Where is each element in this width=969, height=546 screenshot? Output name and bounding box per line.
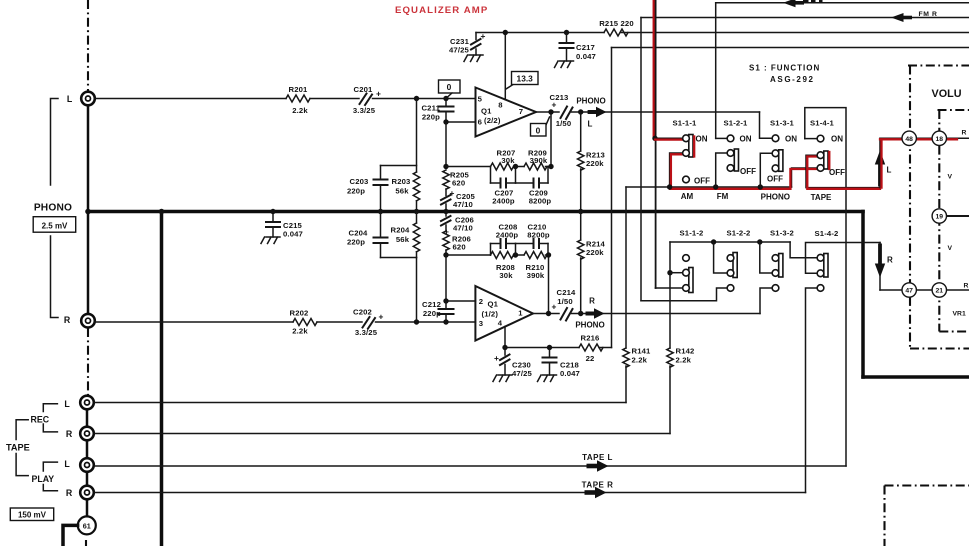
svg-text:3.3/25: 3.3/25	[355, 328, 378, 337]
svg-text:PHONO: PHONO	[576, 97, 605, 106]
svg-text:8200p: 8200p	[527, 231, 550, 240]
svg-text:S1-4-2: S1-4-2	[815, 229, 839, 238]
node mid feedback	[513, 164, 518, 169]
rec out L vertical with R141	[625, 187, 627, 348]
svg-text:S1-2-1: S1-2-1	[724, 118, 749, 127]
resistor R201	[286, 95, 310, 102]
capacitor C204	[347, 212, 388, 258]
node rail S1-2-2	[711, 239, 716, 244]
node S1-1-2 mid	[667, 270, 672, 275]
rec out R vertical with R142	[669, 273, 671, 348]
svg-text:C212: C212	[422, 300, 441, 309]
wire pin2	[446, 300, 475, 302]
svg-text:620: 620	[453, 243, 466, 252]
svg-text:8200p: 8200p	[529, 197, 552, 206]
svg-text:2: 2	[479, 297, 483, 306]
svg-text:S1-1-1: S1-1-1	[673, 118, 698, 127]
svg-text:18: 18	[936, 136, 944, 143]
svg-text:+: +	[552, 100, 557, 110]
callout box 0 (output)	[531, 117, 550, 136]
ground bus thick bottom right	[863, 375, 969, 379]
resistor R142	[667, 348, 673, 367]
capacitor C218	[543, 348, 581, 379]
resistor R205	[443, 170, 470, 189]
svg-text:48: 48	[905, 136, 913, 143]
svg-text:220k: 220k	[586, 159, 604, 168]
switch S1-1-2	[683, 255, 693, 293]
wire S1-2-1 ON elbow	[716, 137, 728, 139]
ground (C215)	[261, 237, 280, 244]
connector pin 21	[932, 283, 946, 297]
resistor R213	[578, 112, 605, 212]
jack chain wire	[87, 214, 90, 314]
op-amp Q1 (2/2)	[476, 88, 537, 137]
svg-text:2.2k: 2.2k	[632, 356, 648, 365]
volume box dash-dot inner	[938, 109, 969, 111]
wire AM to S1-1-1 ON	[655, 137, 683, 139]
svg-text:56k: 56k	[396, 235, 410, 244]
wire S1-1-2 mid	[670, 272, 683, 274]
tape rec jack R	[80, 427, 94, 441]
feedback to output vertical R	[548, 255, 550, 314]
wire R to circles	[880, 289, 969, 291]
red overlay jog	[790, 169, 816, 189]
resistor R203	[392, 172, 420, 212]
arrow L up to volume	[875, 138, 885, 187]
capacitor C202 (electrolytic)	[353, 308, 384, 338]
wire	[317, 321, 362, 323]
capacitor C203	[347, 166, 388, 212]
wire	[572, 313, 761, 315]
svg-text:+: +	[494, 353, 499, 363]
wire FM R line	[641, 17, 969, 19]
wire rail to S1-2-2 mid	[714, 242, 728, 273]
svg-text:R: R	[964, 283, 969, 290]
wire S1-4-1 common out	[806, 155, 880, 187]
svg-text:13.3: 13.3	[517, 74, 534, 84]
arrow R down to volume	[875, 243, 885, 291]
svg-text:AM: AM	[681, 192, 694, 201]
ground (C218)	[538, 375, 557, 382]
svg-text:R: R	[589, 297, 595, 306]
svg-text:PLAY: PLAY	[31, 474, 54, 484]
chassis dash-dot border top-left	[87, 0, 89, 91]
svg-text:R142: R142	[676, 347, 695, 356]
svg-text:(1/2): (1/2)	[482, 310, 499, 319]
wire bank1 bus	[626, 186, 792, 188]
svg-text:56k: 56k	[395, 187, 409, 196]
svg-text:7: 7	[519, 107, 523, 116]
svg-text:+: +	[450, 188, 455, 198]
svg-text:1/50: 1/50	[557, 297, 573, 306]
resistor R141	[623, 348, 629, 367]
jack chain wire	[86, 472, 89, 486]
resistor R214	[578, 212, 606, 314]
svg-text:FM R: FM R	[919, 11, 938, 18]
capacitor C201 (electrolytic)	[353, 85, 381, 115]
svg-text:0.047: 0.047	[283, 230, 303, 239]
resistor R207	[491, 163, 514, 170]
rail C203 R203	[381, 165, 417, 167]
node mid feedback R	[513, 252, 518, 257]
connector pin 19	[932, 209, 946, 223]
node bus S1-1-1	[667, 184, 672, 189]
connector pin 47	[902, 283, 916, 297]
node AM junction	[652, 136, 657, 141]
jack chain wire	[86, 441, 89, 459]
switch S1-4-2	[817, 254, 828, 292]
arrow FM R	[891, 13, 912, 22]
node C218	[547, 345, 552, 350]
svg-text:2400p: 2400p	[496, 231, 519, 240]
pin2 feedback vertical	[445, 255, 447, 301]
svg-text:47: 47	[905, 288, 913, 295]
svg-text:0: 0	[447, 82, 452, 92]
svg-text:S1-3-1: S1-3-1	[770, 118, 795, 127]
tape outer bracket	[16, 420, 28, 476]
svg-text:R: R	[66, 488, 73, 498]
capacitor C213 (electrolytic)	[550, 93, 573, 128]
wire bus jog to S1-4-1 OFF	[792, 168, 818, 187]
svg-text:0: 0	[536, 126, 541, 136]
svg-text:150 mV: 150 mV	[18, 511, 47, 520]
jack chain wire	[86, 410, 89, 428]
svg-text:PHONO: PHONO	[575, 321, 604, 330]
ground bus thick horizontal	[88, 210, 863, 214]
resistor R215	[604, 29, 628, 36]
svg-text:5: 5	[478, 95, 483, 104]
svg-text:ON: ON	[785, 134, 797, 143]
node output	[548, 109, 553, 114]
svg-text:3.3/25: 3.3/25	[353, 106, 376, 115]
wire S1-2-1 common	[716, 153, 728, 187]
svg-text:R204: R204	[391, 226, 411, 235]
svg-text:3: 3	[479, 319, 483, 328]
tape play jack L	[80, 458, 94, 472]
arrow PHONO R out	[586, 308, 605, 319]
switch S1-2-1	[727, 135, 738, 171]
capacitor C217	[560, 33, 597, 62]
svg-text:1/50: 1/50	[556, 119, 572, 128]
svg-text:C204: C204	[349, 229, 369, 238]
svg-text:TAPE L: TAPE L	[582, 453, 613, 462]
node C217	[564, 30, 569, 35]
wire	[373, 98, 476, 100]
svg-text:ON: ON	[831, 135, 843, 144]
arrow TAPE R	[585, 487, 607, 499]
svg-text:220p: 220p	[347, 238, 365, 247]
wire	[546, 166, 552, 168]
wire phono L input	[95, 98, 286, 100]
capacitor C230 (electrolytic)	[494, 348, 533, 379]
wire R216 to supply vertical	[599, 347, 612, 349]
svg-text:R202: R202	[290, 309, 309, 318]
red overlay bank1 bus	[670, 188, 790, 190]
node pin3	[443, 319, 448, 324]
wire tape play L line	[95, 465, 847, 467]
red overlay AM to ON	[655, 138, 682, 140]
load network vertical	[416, 99, 418, 173]
wire play R to S1-4-2	[806, 288, 818, 493]
feedback to output vertical	[550, 112, 552, 167]
svg-text:8: 8	[498, 101, 503, 110]
node bus C203	[378, 209, 383, 214]
supply rail wire	[476, 32, 604, 34]
svg-text:620: 620	[452, 179, 465, 188]
svg-text:ASG-292: ASG-292	[770, 75, 815, 84]
svg-text:19: 19	[936, 214, 944, 221]
svg-text:TAPE: TAPE	[811, 193, 832, 202]
wire rail to S1-3-2 mid	[760, 242, 773, 273]
supply vertical from top	[611, 48, 613, 348]
svg-text:ON: ON	[696, 134, 708, 143]
wire L to circles	[880, 137, 969, 139]
svg-text:R: R	[64, 315, 71, 325]
node R213	[578, 109, 583, 114]
FM R feed vertical	[640, 18, 642, 301]
wire S1-4-1 ON elbow	[805, 138, 818, 140]
svg-text:C211: C211	[421, 104, 440, 113]
supply line to edge	[621, 32, 969, 34]
supply line y47 to edge	[612, 47, 969, 49]
svg-text:+: +	[379, 312, 384, 322]
tape play jack R	[80, 486, 94, 500]
svg-text:PHONO: PHONO	[34, 203, 72, 214]
wire	[625, 366, 627, 403]
resistor R202	[293, 319, 317, 326]
FM L feed vertical	[715, 3, 717, 139]
svg-text:OFF: OFF	[829, 168, 845, 177]
capacitor C209	[516, 179, 552, 206]
wire	[310, 98, 359, 100]
svg-text:FM: FM	[717, 192, 729, 201]
ground bus thick corner down	[861, 212, 865, 378]
node R input	[414, 319, 419, 324]
arrow TAPE L	[587, 460, 609, 472]
capacitor C207	[491, 179, 516, 206]
node pin4	[502, 345, 507, 350]
node R214 out	[578, 311, 583, 316]
svg-text:390k: 390k	[527, 271, 545, 280]
svg-text:2.2k: 2.2k	[292, 106, 308, 115]
svg-text:220p: 220p	[423, 309, 441, 318]
capacitor C214 (electrolytic)	[552, 288, 577, 321]
supply rail R wire	[505, 347, 579, 349]
wire phono L to S1-3-1 ON	[760, 112, 773, 138]
svg-text:R141: R141	[632, 347, 652, 356]
ground (C230)	[493, 375, 512, 382]
AM R feed vertical	[655, 0, 657, 288]
svg-text:C217: C217	[576, 43, 595, 52]
capacitor C210	[516, 223, 550, 249]
svg-text:C201: C201	[354, 85, 374, 94]
FM R feed to S1-2-2	[641, 288, 727, 301]
svg-text:TAPE R: TAPE R	[582, 481, 614, 490]
switch S1-3-2	[772, 254, 783, 292]
svg-text:C203: C203	[350, 177, 369, 186]
jack chain wire	[86, 500, 89, 517]
chassis dash-dot below phono R	[87, 328, 89, 396]
svg-text:+: +	[376, 89, 381, 99]
feedback rail wires	[446, 166, 491, 168]
svg-text:220p: 220p	[347, 187, 365, 196]
svg-text:R201: R201	[289, 85, 309, 94]
wire rail to S1-1-2 mid	[669, 242, 671, 273]
resistor R216	[579, 344, 603, 351]
capacitor C212	[422, 300, 453, 322]
svg-text:S1-2-2: S1-2-2	[727, 229, 751, 238]
svg-text:VOLU: VOLU	[932, 88, 962, 100]
svg-text:C214: C214	[557, 288, 577, 297]
svg-text:30k: 30k	[499, 271, 513, 280]
2.5mV level box	[33, 217, 75, 233]
svg-text:OFF: OFF	[740, 167, 756, 176]
node bus R213	[578, 209, 583, 214]
connector pin 48	[902, 131, 916, 145]
node bus C205	[443, 209, 448, 214]
wire rail jog to S1-4-2 top	[790, 242, 817, 258]
svg-text:2.2k: 2.2k	[292, 327, 308, 336]
bottom right dash-dot box	[885, 484, 969, 486]
svg-text:OFF: OFF	[694, 176, 710, 185]
tape play bracket	[43, 462, 57, 491]
resistor R208	[491, 252, 514, 259]
svg-text:2400p: 2400p	[492, 197, 515, 206]
switch S1-2-2	[727, 253, 737, 292]
svg-text:30k: 30k	[501, 156, 515, 165]
svg-text:+: +	[481, 31, 486, 41]
feedback node vertical	[445, 122, 447, 167]
switch S1-3-1	[772, 135, 783, 172]
node PHONO shield	[85, 209, 91, 215]
node pin2	[443, 298, 448, 303]
wire	[514, 254, 525, 256]
svg-text:21: 21	[936, 288, 944, 295]
tape rec bracket	[43, 404, 57, 432]
svg-text:R203: R203	[392, 177, 411, 186]
load network vertical (R)	[416, 258, 418, 323]
svg-text:R: R	[887, 256, 893, 265]
output wire pin7	[536, 111, 559, 113]
svg-text:390k: 390k	[530, 156, 548, 165]
resistor R204	[391, 212, 420, 258]
ground (C231)	[464, 55, 483, 62]
volume box dash-dot outer	[908, 64, 969, 66]
wire rec R line	[95, 433, 671, 435]
wire	[669, 366, 671, 434]
svg-text:TAPE: TAPE	[6, 443, 30, 453]
wire FM L line top	[716, 2, 969, 4]
svg-text:L: L	[64, 459, 70, 469]
svg-text:4: 4	[498, 319, 503, 328]
arrow FM L	[783, 0, 804, 7]
chassis dash below 61	[85, 540, 87, 546]
svg-text:S1-1-2: S1-1-2	[680, 229, 704, 238]
svg-text:L: L	[67, 94, 73, 104]
wire	[546, 254, 549, 256]
svg-text:L: L	[588, 119, 593, 128]
wire tape play R line	[95, 492, 806, 494]
junction ground feed	[159, 209, 165, 215]
svg-text:2.2k: 2.2k	[676, 356, 692, 365]
arrow PHONO L out	[588, 107, 607, 118]
svg-text:L: L	[64, 399, 70, 409]
phono input jack R	[81, 314, 95, 328]
node feedback R	[443, 252, 448, 257]
label FM L (cut off)	[803, 0, 809, 2]
capacitor C205 (electrolytic)	[441, 188, 476, 212]
node pin5	[443, 96, 448, 101]
ground (C217)	[555, 61, 574, 68]
feedback rail wires R	[446, 254, 491, 256]
svg-text:220k: 220k	[586, 248, 604, 257]
svg-text:R: R	[66, 429, 73, 439]
capacitor C206 (electrolytic)	[441, 212, 474, 237]
svg-text:S1 : FUNCTION: S1 : FUNCTION	[749, 64, 820, 73]
node rail S1-3-2	[757, 239, 762, 244]
svg-text:0.047: 0.047	[576, 52, 596, 61]
svg-text:+: +	[552, 302, 557, 312]
bank2 common rail	[670, 241, 790, 243]
supply pin8 vertical	[504, 33, 506, 100]
svg-text:Q1: Q1	[488, 300, 499, 309]
wire	[572, 111, 760, 113]
svg-text:C202: C202	[353, 308, 372, 317]
resistor R209	[524, 163, 547, 170]
phono bracket	[51, 99, 59, 186]
jack chain wire	[87, 106, 90, 210]
S1-4-1 label box / play L feed	[805, 108, 846, 466]
node bus R203	[414, 209, 419, 214]
node bus S1-2-1	[713, 184, 718, 189]
phono input jack L	[81, 92, 95, 106]
svg-text:47/25: 47/25	[512, 369, 533, 378]
thick ground feed vertical	[160, 212, 164, 546]
op-amp Q1 (1/2)	[475, 286, 533, 341]
connector pin 18	[932, 131, 946, 145]
node pin8 supply	[503, 30, 508, 35]
connector pin 61	[78, 516, 96, 534]
svg-text:47/10: 47/10	[453, 200, 473, 209]
svg-text:Q1: Q1	[481, 107, 492, 116]
wire pin6	[446, 121, 476, 123]
svg-text:1: 1	[518, 309, 523, 318]
pin4 supply vertical	[504, 327, 506, 348]
svg-text:V: V	[948, 245, 953, 252]
tape rec jack L	[80, 396, 94, 410]
resistor R206	[443, 231, 471, 255]
wire phono R input	[95, 321, 293, 323]
red overlay S1-4-1 out	[807, 157, 880, 189]
wire	[376, 321, 476, 323]
thick wire from 61 to bottom edge	[63, 525, 78, 546]
callout box 13.3	[506, 72, 538, 90]
wire	[514, 166, 525, 168]
callout box 0 (pin5)	[439, 80, 461, 97]
wire 19 to edge	[947, 215, 969, 217]
svg-text:VR1: VR1	[953, 311, 966, 318]
svg-text:47/25: 47/25	[449, 46, 470, 55]
red overlay L up	[880, 139, 882, 188]
node bus C215	[270, 209, 275, 214]
capacitor C207 stubs	[490, 167, 492, 184]
svg-text:R: R	[962, 130, 967, 137]
node output R	[546, 311, 551, 316]
rail C204 R204	[381, 257, 417, 259]
svg-text:PHONO: PHONO	[761, 193, 790, 202]
node feedback	[443, 164, 448, 169]
svg-text:R215 220: R215 220	[599, 19, 634, 28]
